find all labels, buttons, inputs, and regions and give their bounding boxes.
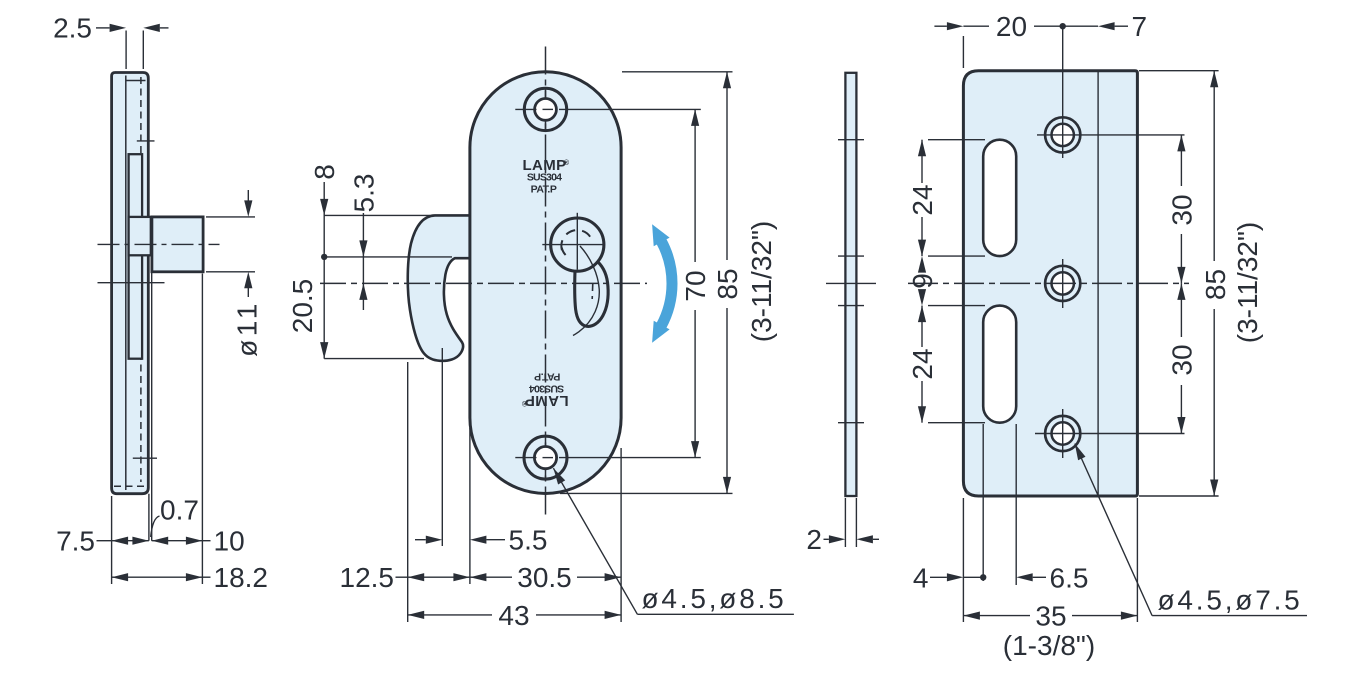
dimension 24 bottom: line and arrows (921, 306, 923, 347)
dimension 20 / 7: top row (934, 25, 947, 27)
svg-text:(3-11/32"): (3-11/32") (746, 221, 777, 342)
front view: top mounting hole outer circle (524, 88, 566, 130)
strike plate side view (2mm) (845, 73, 856, 496)
svg-text:20: 20 (996, 11, 1027, 42)
front view: bottom hole crosshair / 70 extension line (515, 457, 536, 459)
dimension 8 and 20.5: vertical dimension line (323, 182, 325, 359)
front view: LAMP logo text block top (522, 157, 569, 196)
left view: bottom extension lines (111, 496, 113, 584)
front view: latch plate body (obround) (470, 72, 621, 494)
svg-text:®: ® (521, 399, 527, 407)
svg-text:35: 35 (1035, 601, 1066, 632)
strike plate: bottom hole (1045, 416, 1080, 451)
left side view: latch body plate (112, 73, 149, 494)
dimension 5.3: vertical dimension line (362, 213, 364, 310)
left view: inner top edge line (126, 80, 146, 82)
svg-text:85: 85 (712, 268, 743, 299)
svg-text:PAT.P: PAT.P (531, 184, 557, 196)
dimension 9: line and arrows (918, 256, 926, 273)
svg-text:2.5: 2.5 (53, 13, 92, 44)
dimension 70: vertical line and arrows (694, 109, 696, 262)
dimension 5.5: row (415, 539, 426, 541)
left view: hook pin through slot (129, 217, 151, 255)
svg-text:0.7: 0.7 (160, 495, 199, 526)
dimension 2: extension lines (844, 498, 846, 547)
svg-text:PAT.P: PAT.P (534, 371, 560, 383)
strike plate: top hole (1045, 117, 1080, 152)
left view: lower hole tick (133, 457, 157, 459)
front view: top mounting hole inner circle (535, 99, 557, 121)
svg-text:8: 8 (309, 164, 340, 180)
strike plate: 85 extension lines (1139, 70, 1219, 72)
left view: hook arm seen from side (129, 154, 143, 359)
dimension ø11: extension lines (206, 216, 255, 218)
front view: cam circle (551, 218, 604, 271)
svg-text:6.5: 6.5 (1050, 562, 1089, 593)
svg-text:5.3: 5.3 (348, 174, 379, 213)
svg-text:ø4.5,ø8.5: ø4.5,ø8.5 (642, 583, 787, 614)
left view: boss centerline (98, 243, 220, 245)
svg-text:18.2: 18.2 (214, 562, 269, 593)
svg-text:12.5: 12.5 (340, 562, 395, 593)
front view: bottom extension lines (407, 362, 409, 622)
dimension 2.5: extension lines (125, 31, 127, 70)
leader ø4.5,ø8.5: arrow and line (553, 468, 565, 484)
dimension 30.5: row (470, 573, 487, 581)
svg-text:7.5: 7.5 (56, 526, 95, 557)
svg-text:24: 24 (907, 184, 938, 215)
dimension 24 top: line and arrows (921, 140, 923, 183)
svg-text:(1-3/8"): (1-3/8") (1003, 630, 1095, 661)
dimension 20.5: extension line (hook bottom) (324, 358, 424, 360)
side view: slot end ticks (838, 139, 864, 141)
front view: bottom mounting hole outer circle (524, 436, 567, 479)
svg-text:43: 43 (498, 600, 529, 631)
front view: bottom mounting hole inner circle (534, 447, 556, 469)
dimension 43: row (408, 611, 425, 619)
svg-text:9: 9 (907, 273, 938, 289)
dimension 30 bottom: line and arrows (1180, 283, 1182, 337)
front view: hook arm (left protrusion) (408, 215, 470, 360)
front view: cam tail (hook lever) (575, 262, 608, 327)
strike plate: middle hole crosshair vertical (1062, 259, 1064, 308)
svg-text:ø11: ø11 (232, 300, 263, 357)
strike plate: top slot (983, 140, 1016, 256)
dimension 8/20.5: extension line (notch top) (324, 256, 452, 258)
strike plate: bend line (1097, 71, 1099, 496)
svg-text:20.5: 20.5 (287, 279, 318, 334)
svg-text:SUS304: SUS304 (529, 383, 564, 395)
svg-text:30: 30 (1166, 344, 1197, 375)
front view: LAMP logo text block bottom (rotated 180) (521, 371, 568, 410)
dimension 0.7: leader curve (151, 516, 160, 537)
svg-text:30.5: 30.5 (517, 562, 572, 593)
strike plate: bottom slot (983, 306, 1016, 423)
strike plate front view body (963, 71, 1137, 496)
front view: cam crosshair vertical (576, 213, 578, 270)
left view: 0.7 gap lines (148, 494, 150, 541)
strike plate: bottom hole crosshair (1062, 409, 1064, 458)
dimension 18.2: dimension row (112, 573, 129, 581)
left view: hidden bottom edge (dashed) (114, 485, 146, 487)
left view: upper hole tick (137, 140, 155, 142)
strike plate: slot extension lines left (928, 139, 985, 141)
svg-text:7: 7 (1132, 11, 1148, 42)
svg-text:(3-11/32"): (3-11/32") (1232, 222, 1263, 343)
dimension 2.5: arrows and line (96, 27, 110, 29)
svg-text:10: 10 (214, 526, 245, 557)
svg-text:85: 85 (1200, 269, 1231, 300)
dimension 30 top: line and arrows (1180, 135, 1182, 186)
svg-text:70: 70 (680, 270, 711, 301)
svg-text:30: 30 (1166, 194, 1197, 225)
strike plate: top hole crosshair / 30 extension (1037, 134, 1185, 136)
strike plate: middle centerline (dash-dot) (908, 282, 1189, 284)
strike plate: middle hole (1045, 266, 1080, 301)
dimension 85: vertical line and arrows (726, 72, 728, 260)
svg-text:SUS304: SUS304 (527, 172, 562, 184)
left view: round boss (latch knob) side view (152, 217, 203, 272)
svg-text:5.5: 5.5 (509, 525, 548, 556)
svg-text:4: 4 (913, 562, 929, 593)
rotation arrow (blue) (661, 241, 672, 326)
left view: inner front-plate edge line (125, 76, 127, 491)
front view: cam hidden dash (591, 283, 594, 299)
front view: top hole crosshair / 70 extension line (515, 108, 536, 110)
front view: vertical centerline (dash-dot) (545, 47, 547, 518)
dimension 20/7: extension lines (962, 36, 964, 68)
dimension 85 right: line and arrows (1213, 71, 1215, 261)
front view: cam crosshair horizontal (542, 244, 604, 246)
leader ø4.5,ø7.5: arrow and line (1075, 444, 1086, 461)
front view: horizontal mid centerline (dash-dot) (320, 282, 647, 284)
front view: cam edge thin curve (573, 246, 599, 336)
front view: cam hidden arc (dashed) (561, 230, 592, 250)
left view: hidden rear edge (dashed) (140, 77, 142, 482)
dimension 35: row (963, 612, 980, 620)
dimension 8: extension line (hook top) (324, 214, 430, 216)
dimension ø11: arrows (247, 190, 249, 201)
svg-text:2: 2 (806, 524, 822, 555)
strike plate: bottom extension lines (962, 498, 964, 622)
svg-text:®: ® (564, 159, 570, 167)
side view: centerline (826, 282, 876, 284)
left view: mid-height centerline tick (98, 282, 165, 284)
svg-text:24: 24 (907, 348, 938, 379)
front view: right extension lines (622, 71, 733, 73)
svg-text:ø4.5,ø7.5: ø4.5,ø7.5 (1158, 585, 1303, 616)
